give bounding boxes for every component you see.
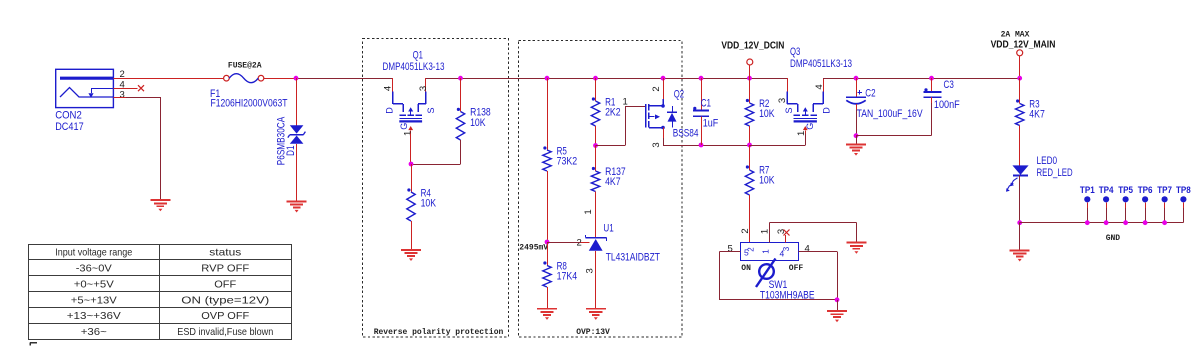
svg-text:C3: C3: [944, 79, 954, 91]
svg-text:TP8: TP8: [1176, 185, 1191, 196]
ground at SW1: [827, 311, 847, 322]
svg-text:FUSE@2A: FUSE@2A: [228, 61, 262, 70]
svg-text:10K: 10K: [759, 108, 775, 120]
wire R137 to U1 cathode: [583, 192, 595, 238]
ground at D1: [287, 201, 307, 212]
capacitor C2 TAN_100uF_16V: [846, 78, 923, 136]
wire U1 anode to ground: [595, 251, 597, 308]
ground at GND rail: [1010, 250, 1030, 261]
resistor R2 10K: [745, 78, 774, 145]
junction C1 bottom: [699, 143, 704, 148]
svg-text:4: 4: [383, 86, 394, 91]
svg-text:C2: C2: [865, 87, 875, 99]
svg-text:P6SMB30CA: P6SMB30CA: [275, 116, 287, 165]
resistor R8 17K4: [543, 242, 577, 308]
resistor R7 10K: [745, 145, 774, 243]
svg-text:RVP OFF: RVP OFF: [201, 263, 249, 275]
junction C3: [929, 76, 934, 81]
resistor R4 10K: [407, 164, 436, 250]
resistor R5 73K2: [543, 78, 577, 171]
svg-text:10K: 10K: [759, 174, 775, 186]
transistor Q2 BSS84: [646, 78, 699, 147]
wire GND rail: [1020, 223, 1184, 244]
ground at U1: [586, 309, 606, 320]
wire C2 node to ground: [856, 136, 858, 144]
svg-text:ESD invalid,Fuse blown: ESD invalid,Fuse blown: [177, 326, 273, 338]
svg-text:Q1: Q1: [413, 50, 423, 62]
power flag VDD_12V_DCIN: [721, 41, 784, 79]
ground at R8: [537, 309, 557, 320]
svg-text:D: D: [385, 107, 395, 114]
TVS diode D1 P6SMB30CA: [275, 116, 305, 165]
svg-text:OFF: OFF: [789, 264, 804, 273]
svg-text:status: status: [209, 247, 241, 259]
junction R2/R7/Q3 gate node: [747, 143, 752, 148]
svg-text:S: S: [426, 107, 436, 113]
junction C1 top: [699, 76, 704, 81]
junction Q2 source: [661, 76, 666, 81]
connector CON2 DC417: [55, 69, 137, 133]
junction R5: [545, 76, 550, 81]
svg-text:GND: GND: [1106, 234, 1121, 243]
transistor Q3 DMP4051LK3-13: [777, 46, 852, 136]
svg-text:Q3: Q3: [790, 46, 800, 58]
test point TP6: [1138, 185, 1153, 225]
wire R3 to LED0: [1019, 126, 1021, 166]
svg-text:3: 3: [777, 98, 788, 103]
svg-text:73K2: 73K2: [557, 155, 578, 167]
wire fuse to Q1: [264, 78, 393, 80]
wire rail Q3 to VDD_12V_MAIN: [823, 78, 1020, 80]
svg-text:+0~+5V: +0~+5V: [74, 278, 114, 290]
test point TP5: [1118, 185, 1133, 225]
wire Q3 gate to R2/R7 node: [750, 134, 806, 146]
svg-text:LED0: LED0: [1037, 155, 1058, 167]
node 2495mV junction: [519, 240, 549, 253]
svg-text:+5~+13V: +5~+13V: [71, 294, 117, 306]
junction VDD_12V_MAIN: [1017, 76, 1022, 81]
svg-text:OFF: OFF: [214, 278, 236, 290]
svg-text:4: 4: [780, 249, 785, 259]
svg-text:2495mV: 2495mV: [519, 243, 548, 252]
wire SW1 pin1 to ground: [770, 223, 857, 243]
junction at D1 node: [294, 76, 299, 81]
svg-text:10K: 10K: [470, 117, 486, 129]
svg-text:17K4: 17K4: [557, 270, 578, 282]
connector CON2 switch arrow: [88, 93, 93, 98]
svg-text:Reverse polarity protection: Reverse polarity protection: [374, 328, 504, 337]
svg-text:G: G: [805, 123, 815, 130]
wire CON2 pin2 to fuse F1: [113, 78, 223, 80]
wire U1 ref to 2495mV node: [547, 242, 590, 244]
svg-text:TP4: TP4: [1099, 185, 1114, 196]
svg-text:+36~: +36~: [81, 326, 107, 338]
svg-text:DMP4051LK3-13: DMP4051LK3-13: [790, 58, 852, 70]
test point TP8: [1176, 185, 1191, 223]
svg-text:-36~0V: -36~0V: [76, 263, 112, 275]
wire Q1 gate to node: [410, 134, 412, 165]
svg-text:TP6: TP6: [1138, 185, 1153, 196]
wire R5 to ref node: [547, 171, 549, 242]
svg-text:BSS84: BSS84: [673, 128, 699, 140]
resistor R3 4K7: [1016, 78, 1045, 125]
svg-text:1: 1: [403, 131, 414, 136]
no-connect X on SW1 pin 3: [784, 230, 790, 236]
svg-text:TL431AIDBZT: TL431AIDBZT: [606, 251, 661, 263]
svg-text:Q2: Q2: [674, 89, 684, 101]
svg-text:1: 1: [760, 249, 770, 254]
svg-text:D1: D1: [285, 145, 297, 155]
svg-text:3: 3: [651, 142, 662, 147]
svg-text:4K7: 4K7: [605, 176, 621, 188]
junction C2: [854, 76, 859, 81]
svg-text:VDD_12V_MAIN: VDD_12V_MAIN: [991, 40, 1056, 51]
resistor R138 10K: [456, 78, 490, 140]
svg-text:2A MAX: 2A MAX: [1001, 31, 1030, 40]
tick mark below table: [30, 343, 37, 346]
transistor Q1 DMP4051LK3-13: [383, 50, 445, 136]
svg-text:CON2: CON2: [55, 110, 82, 122]
capacitor C1 1uF: [693, 78, 719, 145]
wire CON2 pin3 to ground: [126, 97, 161, 200]
svg-text:4K7: 4K7: [1029, 108, 1045, 120]
svg-text:TP1: TP1: [1080, 185, 1095, 196]
svg-text:Input voltage range: Input voltage range: [55, 247, 132, 259]
svg-text:1: 1: [583, 209, 594, 214]
svg-text:G: G: [399, 123, 409, 130]
svg-text:3: 3: [120, 90, 125, 101]
svg-text:1uF: 1uF: [703, 118, 719, 130]
LED LED0 RED_LED: [1006, 155, 1073, 192]
test point TP1: [1080, 185, 1095, 225]
wire D1 to ground: [296, 144, 298, 201]
test point TP7: [1157, 185, 1172, 225]
resistor R1 2K2: [591, 78, 620, 145]
wire SW1 node to ground: [837, 300, 839, 311]
svg-text:100nF: 100nF: [934, 99, 960, 111]
svg-text:C1: C1: [701, 98, 711, 110]
wire Q2 drain node: [663, 138, 803, 146]
capacitor C3 100nF: [924, 78, 961, 111]
svg-text:TP7: TP7: [1157, 185, 1172, 196]
resistor R137 4K7: [591, 146, 625, 192]
svg-text:DMP4051LK3-13: DMP4051LK3-13: [383, 61, 445, 73]
wire LED0 node to ground: [1019, 223, 1021, 250]
svg-text:TAN_100uF_16V: TAN_100uF_16V: [857, 108, 924, 120]
wire SW1 pin4 to ground node: [799, 252, 838, 300]
svg-text:4: 4: [805, 244, 810, 255]
svg-text:S: S: [784, 107, 794, 113]
svg-text:+13~+36V: +13~+36V: [67, 310, 121, 322]
svg-text:2: 2: [651, 86, 662, 91]
junction Q1 gate node: [409, 162, 414, 167]
dashed box: Reverse polarity protection: [363, 39, 509, 338]
svg-text:VDD_12V_DCIN: VDD_12V_DCIN: [721, 41, 784, 52]
svg-text:3: 3: [584, 268, 595, 273]
svg-text:OVP:13V: OVP:13V: [576, 328, 610, 337]
svg-text:1: 1: [623, 97, 628, 108]
wire C2 bottom to C3 bottom: [856, 103, 932, 136]
junction R138: [458, 76, 463, 81]
junction R2 top: [747, 76, 752, 81]
switch SW1 T103MH9ABE: [728, 228, 815, 301]
ground at C2: [846, 144, 866, 155]
junction R1: [593, 76, 598, 81]
wire R138 to gate node: [412, 140, 461, 165]
svg-text:2: 2: [740, 228, 751, 233]
wire to TVS D1: [296, 78, 298, 125]
dashed box: OVP 13V: [519, 41, 683, 338]
junction SW1 ground node: [835, 297, 840, 302]
svg-text:2: 2: [747, 247, 756, 252]
power flag VDD_12V_MAIN 2A MAX: [991, 31, 1056, 78]
svg-text:2K2: 2K2: [605, 106, 621, 118]
svg-text:OVP OFF: OVP OFF: [201, 310, 249, 322]
shunt regulator U1 TL431AIDBZT: [577, 223, 661, 274]
svg-text:10K: 10K: [421, 197, 437, 209]
svg-text:F1206HI2000V063T: F1206HI2000V063T: [211, 97, 288, 109]
svg-text:4: 4: [814, 84, 825, 89]
svg-text:D: D: [822, 107, 832, 114]
wire SW1 pin5 loop: [720, 251, 838, 299]
wire LED0 to GND rail: [1019, 176, 1021, 223]
wire Q2 gate to R1/R137 node: [596, 97, 646, 146]
svg-text:ON (type=12V): ON (type=12V): [181, 294, 269, 306]
svg-text:DC417: DC417: [55, 121, 83, 133]
svg-text:ON: ON: [741, 264, 751, 273]
svg-text:RED_LED: RED_LED: [1037, 167, 1073, 179]
ground at R4: [401, 250, 421, 261]
ground at CON2 pin 3: [150, 200, 170, 211]
wire rail Q1 to Q3: [426, 78, 787, 80]
svg-text:1: 1: [759, 229, 770, 234]
table: input voltage range vs status: [28, 244, 292, 340]
junction R1/R137 node: [593, 143, 598, 148]
svg-text:2: 2: [577, 238, 582, 249]
test point TP4: [1099, 185, 1114, 225]
ground at SW1 pin 1: [846, 243, 866, 254]
fuse F1 FUSE@2A: [210, 61, 288, 109]
svg-text:U1: U1: [603, 223, 613, 235]
junction LED0 GND rail: [1017, 220, 1022, 225]
no-connect X on CON2 pin 4: [138, 85, 144, 91]
svg-text:3: 3: [418, 86, 429, 91]
junction C2 bottom node: [854, 133, 859, 138]
svg-text:TP5: TP5: [1118, 185, 1133, 196]
svg-text:5: 5: [728, 244, 733, 255]
